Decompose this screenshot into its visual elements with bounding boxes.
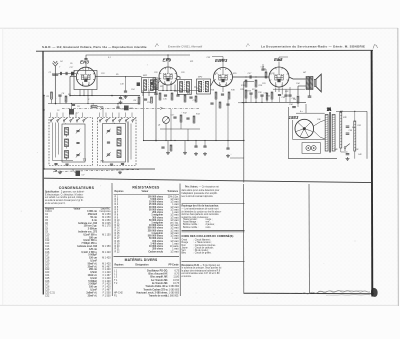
svg-text:F 1 500: F 1 500 [103,292,112,294]
svg-text:C14: C14 [131,88,134,91]
svg-text:10 watts: 10 watts [170,245,180,248]
svg-text:7 500pF 250 v.: 7 500pF 250 v. [81,243,97,245]
svg-text:: Connexions internes.: : Connexions internes. [194,244,217,247]
svg-text:3 cm: 3 cm [92,220,97,222]
svg-text:1/2 watt: 1/2 watt [170,235,179,238]
svg-text:25mF él.: 25mF él. [88,295,98,297]
svg-text:C34: C34 [289,103,292,106]
svg-text:C11: C11 [150,90,154,92]
svg-text:25mF él.: 25mF él. [88,266,98,268]
svg-text:Repères: Repères [115,265,125,267]
svg-text:F 1 420: F 1 420 [103,269,112,271]
svg-text:1/2 watt: 1/2 watt [170,227,179,230]
svg-text:0,1mF: 0,1mF [90,290,97,292]
svg-text:C4: C4 [60,60,62,63]
svg-text:1/2 watt: 1/2 watt [170,198,179,201]
svg-text:RÉSISTANCES: RÉSISTANCES [132,184,160,189]
svg-text:5 000pF: 5 000pF [88,255,97,257]
svg-text:C17: C17 [45,255,50,257]
svg-text:0,1mF 500 v.: 0,1mF 500 v. [83,234,97,236]
svg-text:F 1 467: F 1 467 [103,290,112,292]
svg-text:C28: C28 [45,287,50,289]
svg-text:C29: C29 [45,290,50,292]
svg-text:125 cm: 125 cm [89,249,97,251]
svg-text:MF1: MF1 [143,75,147,77]
svg-text:C14: C14 [45,246,50,248]
svg-text:Valeur: Valeur [142,191,149,193]
svg-text:M 1 175: M 1 175 [102,226,111,228]
svg-text:1er Transfo MF.: 1er Transfo MF. [151,280,168,282]
svg-text:C24: C24 [45,275,50,277]
svg-text:C16: C16 [45,252,50,254]
svg-text:rouge ;: rouge ; [206,218,213,221]
svg-text:2x8mF él.: 2x8mF él. [86,292,97,294]
svg-text:C18: C18 [45,258,50,260]
svg-text:1 watt: 1 watt [172,211,179,214]
svg-text:F 1 420: F 1 420 [103,281,112,283]
svg-text:Spécification : 2 gammes, son: Spécification : 2 gammes, son bobiné- [45,190,85,193]
svg-text:à s'éteindre du cordon sur les: à s'éteindre du cordon sur les fils abso… [182,210,222,213]
svg-text:S.B.R. — 112, Boulevard Volt: S.B.R. — 112, Boulevard Voltaire, Paris … [42,45,147,49]
svg-text:Désignation: Désignation [135,264,149,267]
svg-text:16,50: 16,50 [173,280,180,282]
svg-text:Orsat: Orsat [182,239,188,242]
svg-text:M 1 350: M 1 350 [102,246,111,248]
svg-text:1/2 watt: 1/2 watt [170,240,179,243]
svg-text:M 1 467: M 1 467 [102,266,111,268]
svg-text:Résistance R.31 — 5 (ou figuré: Résistance R.31 — 5 (ou figurés) sur [182,264,221,267]
svg-text:HP-CH2: HP-CH2 [114,292,123,294]
svg-text:Bobine mobile :: Bobine mobile : [183,227,199,229]
svg-text:200 cm: 200 cm [89,269,97,271]
svg-text:pot. log.: pot. log. [170,222,179,225]
svg-text:dont les haut-parleurs sont r: dont les haut-parleurs sont raccordés [182,213,220,216]
svg-text:50 cm: 50 cm [90,217,97,219]
svg-text:Transfo d'alim. 90 w.: Transfo d'alim. 90 w. [145,286,168,288]
svg-text:F 1 420: F 1 420 [103,284,112,286]
svg-text:M 1 050: M 1 050 [102,214,111,216]
svg-text:T1: T1 [83,158,87,162]
svg-text:bobinée mod. 042: bobinée mod. 042 [77,245,97,248]
svg-text:: Circuit de grilles.: : Circuit de grilles. [194,252,212,255]
svg-text:Bloc d'accord HF.: Bloc d'accord HF. [149,274,169,276]
svg-text:dans alors qu'en outre détecti: dans alors qu'en outre détection pour [182,189,220,192]
svg-text:C11: C11 [45,237,50,239]
svg-text:250cm/2: 250cm/2 [88,214,98,216]
svg-text:R31: R31 [358,125,361,127]
svg-text:Prix Usines. — Ce récepteur es: Prix Usines. — Ce récepteur est [185,186,219,189]
svg-text:C10: C10 [45,234,50,236]
svg-text:1/2 watt: 1/2 watt [170,229,179,232]
svg-text:Vert: Vert [182,249,186,252]
svg-text:est commandée sous C.P. 10 et: est commandée sous C.P. 10 et C.89 [182,272,221,275]
svg-text:La Documentation du Serviceman: La Documentation du Serviceman-Radio — G… [261,44,365,48]
svg-text:MATÉRIEL DIVERS: MATÉRIEL DIVERS [125,257,158,262]
svg-text:F 1 420: F 1 420 [103,278,112,280]
svg-text:a: a [65,123,66,125]
svg-text:C22: C22 [45,269,50,271]
svg-text:1 400 ohms: 1 400 ohms [150,242,163,245]
svg-text:C13: C13 [45,243,50,245]
svg-text:teur à circuit résonant dé: teur à circuit résonant démodu. [182,195,214,198]
svg-text:1/2 watt: 1/2 watt [170,232,179,235]
svg-text:Incorporés: Incorporés [100,210,112,213]
svg-text:1 watt: 1 watt [172,242,179,245]
svg-text:Repères: Repères [115,191,125,193]
svg-text:0,1mF 1 500 v.: 0,1mF 1 500 v. [81,252,97,254]
svg-text:Bleu: Bleu [182,253,187,255]
svg-text:150 cm 2 gr.: 150 cm 2 gr. [84,226,98,228]
svg-text:CONDENSATEURS: CONDENSATEURS [59,186,95,190]
svg-text:Oscillateur PO-GO.: Oscillateur PO-GO. [147,269,168,272]
svg-text:Haute tension :: Haute tension : [183,218,199,221]
svg-text:noirs.: noirs. [206,226,212,229]
svg-text:50mF él.: 50mF él. [88,263,98,265]
svg-text:PP Cmde: PP Cmde [168,265,179,267]
svg-text:— Les transformateurs de sorti: — Les transformateurs de sortie sont [182,208,219,211]
svg-text:3 680 860: 3 680 860 [169,286,180,288]
svg-text:l'adaptation poussante d'un: l'adaptation poussante d'un amplifi- [182,192,218,195]
svg-text:0,1mF 500 v.: 0,1mF 500 v. [83,240,97,242]
svg-text:EBC3: EBC3 [215,58,228,63]
svg-text:16,75: 16,75 [173,283,180,285]
svg-text:: Circuit filament ;: : Circuit filament ; [194,239,212,242]
svg-text:2 000cm: 2 000cm [88,229,97,231]
svg-text:sur substit. Le nombre qui su: sur substit. Le nombre qui suit, indique [45,196,84,199]
svg-text:C32: C32 [45,295,50,297]
svg-text:Valeur: Valeur [74,208,81,210]
svg-text:la place des résistances bobin: la place des résistances bobinées R.9 [182,269,221,272]
svg-text:et de service pour C.: et de service pour C. [45,202,66,205]
svg-text:Cadran exclu: Cadran exclu [148,251,163,253]
svg-text:Leur Rs.: Leur Rs. [101,208,111,210]
svg-text:Noir: Noir [182,244,186,247]
svg-text:1 watt: 1 watt [172,248,179,251]
svg-text:M 1 420: M 1 420 [102,258,111,260]
svg-text:C12: C12 [45,240,50,242]
svg-text:C27: C27 [45,284,50,286]
svg-text:1 080 805: 1 080 805 [169,289,180,291]
svg-text:C21: C21 [45,266,50,268]
svg-text:Avant filtrage :: Avant filtrage : [183,221,198,224]
svg-text:E électronique. O. détectrice: E électronique. O. détectrice. M valeu- [45,193,84,196]
svg-text:1 080 805: 1 080 805 [169,292,180,294]
svg-text:le schéma de principe. Vous po: le schéma de principe. Vous pouvez lui [182,267,222,270]
svg-text:Haut-parl. excit. 2 080 ohms.: Haut-parl. excit. 2 080 ohms. [137,291,169,294]
svg-text:5 000pF: 5 000pF [88,281,97,283]
svg-text:HP: HP [303,72,307,74]
svg-text:1/2 watt: 1/2 watt [170,250,179,253]
svg-text:C20: C20 [45,263,50,265]
svg-text:C23: C23 [45,272,50,274]
svg-text:M 1 420: M 1 420 [102,263,111,265]
svg-text:Repérage des fils de haut-: Repérage des fils de haut-parleur. [182,205,220,208]
svg-text:C31: C31 [264,93,267,95]
svg-text:1 1 080 805.: 1 1 080 805. [166,296,179,298]
svg-text:C30 C.31: C30 C.31 [45,292,56,294]
svg-text:0,1mF: 0,1mF [90,278,97,280]
svg-text:EK3: EK3 [80,60,89,65]
svg-text:b: b [114,123,115,125]
svg-text:1 watt: 1 watt [172,237,179,240]
svg-text:R 22: R 22 [115,251,121,253]
svg-text:3 000 cm: 3 000 cm [87,211,97,213]
svg-text:bobinée osc. 372: bobinée osc. 372 [78,232,97,234]
svg-text:sa suite la tension d'essai po: sa suite la tension d'essai pour 2 gr th… [45,199,84,202]
svg-text:F 1 420: F 1 420 [103,287,112,289]
svg-text:C25: C25 [45,278,50,280]
svg-text:0,1mF: 0,1mF [90,261,97,263]
svg-text:0,5mF: 0,5mF [90,272,97,274]
svg-text:1/2 watt: 1/2 watt [170,214,179,217]
svg-text:180 cm: 180 cm [89,237,97,239]
svg-text:0,1: 0,1 [108,57,111,59]
svg-text:bobinée osc. 042: bobinée osc. 042 [78,222,97,225]
svg-text:10mF él.: 10mF él. [88,275,98,277]
svg-text:Ensemble CV651, Alternatif: Ensemble CV651, Alternatif [168,45,202,49]
svg-text:M 1 025: M 1 025 [102,223,111,225]
svg-text:1/2 watt: 1/2 watt [170,206,179,209]
svg-text:8,70: 8,70 [174,274,179,276]
svg-text:C26: C26 [45,281,50,283]
svg-text:C34: C34 [296,82,299,85]
svg-text:1/2 watt: 1/2 watt [170,224,179,227]
svg-text:1/2 watt: 1/2 watt [170,201,179,204]
svg-text:Repères: Repères [45,208,55,210]
svg-text:2 500pF: 2 500pF [88,284,97,286]
svg-text:F 1 500: F 1 500 [103,295,112,297]
svg-text:vert ;: vert ; [206,221,211,224]
svg-text:R21: R21 [267,96,271,98]
svg-text:M 1 050: M 1 050 [102,217,111,219]
svg-text:1883: 1883 [289,115,299,120]
svg-text:Tolérance: Tolérance [167,191,178,193]
svg-text:F 1 467: F 1 467 [103,275,112,277]
svg-text:2e Transfo MF.: 2e Transfo MF. [152,283,168,285]
svg-text:: Circuit de cathode ;: : Circuit de cathode ; [194,246,215,249]
svg-text:1/2 watt: 1/2 watt [170,216,179,219]
svg-text:F 1 420: F 1 420 [103,272,112,274]
svg-text:1 watt: 1 watt [172,203,179,206]
svg-text:M 1 050: M 1 050 [102,220,111,222]
svg-text:1/2 watt: 1/2 watt [170,208,179,211]
svg-text:C21: C21 [196,88,199,90]
svg-text:7A: 7A [327,108,331,112]
svg-text:R1: R1 [47,96,50,98]
svg-text:M 1 150: M 1 150 [102,234,111,236]
svg-text:C1: C1 [49,72,52,74]
svg-text:11,80: 11,80 [173,277,179,279]
svg-text:R11: R11 [190,61,193,63]
svg-text:1/2 watt: 1/2 watt [170,219,179,222]
svg-text:C15: C15 [45,249,50,251]
svg-text:et sonore.: et sonore. [182,275,193,278]
svg-text:6,75: 6,75 [174,270,179,272]
svg-text:: + Haute tension ;: : + Haute tension ; [194,241,213,244]
svg-text:150 cm: 150 cm [89,258,97,260]
svg-text:100 cm: 100 cm [89,287,97,289]
svg-text:T2: T2 [100,160,104,164]
svg-text:Transfo Cadran 372 w.: Transfo Cadran 372 w. [143,289,168,291]
svg-text:Bloc amplif. MF.: Bloc amplif. MF. [150,277,168,279]
svg-text:M 1 420: M 1 420 [102,252,111,254]
svg-text:C1/C4: C1/C4 [45,211,52,213]
svg-text:C19: C19 [45,261,50,263]
